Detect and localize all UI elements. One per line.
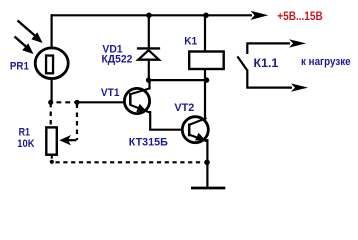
relay contact K1.1	[237, 39, 308, 92]
label К1.1	[254, 56, 279, 70]
svg-text:КТ315Б: КТ315Б	[129, 137, 168, 149]
svg-text:+5В...15В: +5В...15В	[277, 9, 323, 23]
label VT2	[174, 102, 194, 114]
wire PR1 bottom	[50, 79, 52, 104]
label +5В...15В	[277, 9, 323, 23]
node emitter/R1 dashed junction	[204, 160, 210, 166]
ground	[191, 187, 225, 190]
wire VT2 collector up to junction	[204, 80, 206, 121]
node junction B (base line / R1 wiper)	[74, 100, 79, 105]
node rail/K1 junction	[203, 13, 209, 19]
node junction A (PR1 / R1 top)	[48, 100, 53, 105]
svg-text:к нагрузке: к нагрузке	[301, 56, 351, 68]
svg-text:10K: 10K	[17, 138, 34, 150]
diode VD1	[137, 15, 160, 80]
label КТ315Б	[129, 137, 168, 149]
label K1	[184, 35, 197, 47]
wire dashed A to B	[57, 101, 75, 103]
transistor VT1	[124, 88, 150, 113]
wire VT1 emitter down and right to VT2 base	[149, 111, 183, 130]
wire dashed R1 bottom to emitter line	[56, 161, 204, 163]
resistor R1 wiper arrow	[59, 135, 76, 145]
relay coil K1	[189, 15, 224, 80]
photoresistor PR1	[35, 48, 68, 79]
svg-text:VT2: VT2	[174, 102, 194, 114]
wire R1 bottom stub	[51, 155, 53, 159]
wire dashed B down to R1 wiper	[76, 102, 78, 140]
wire PR1 top	[50, 14, 52, 48]
svg-text:K1: K1	[184, 35, 197, 47]
resistor R1 (potentiometer body)	[46, 127, 57, 154]
node K1 bottom junction	[204, 77, 209, 82]
wire VT1 collector up	[148, 80, 150, 89]
transistor VT2	[182, 117, 208, 143]
svg-text:R1: R1	[19, 127, 30, 139]
label к нагрузке	[301, 56, 351, 68]
light arrow 2	[15, 37, 34, 55]
svg-text:VT1: VT1	[101, 87, 120, 99]
wire top rail +V	[52, 11, 269, 20]
light arrow 1	[18, 21, 43, 44]
wire dashed A down to R1 top	[50, 102, 52, 126]
svg-text:К1.1: К1.1	[254, 56, 279, 70]
wire VT1 base	[77, 101, 125, 103]
label VT1	[101, 87, 120, 99]
label PR1	[10, 61, 29, 73]
wire VT2 emitter down to ground	[206, 139, 208, 187]
node R1 bottom dot	[50, 160, 54, 164]
wire collector junction line	[149, 79, 207, 81]
label VD1 КД522	[102, 43, 133, 65]
label R1 10K	[17, 127, 34, 150]
svg-text:PR1: PR1	[10, 61, 29, 73]
svg-text:КД522: КД522	[102, 53, 133, 65]
node diode bottom junction	[146, 77, 151, 82]
node rail/diode junction	[146, 13, 152, 19]
